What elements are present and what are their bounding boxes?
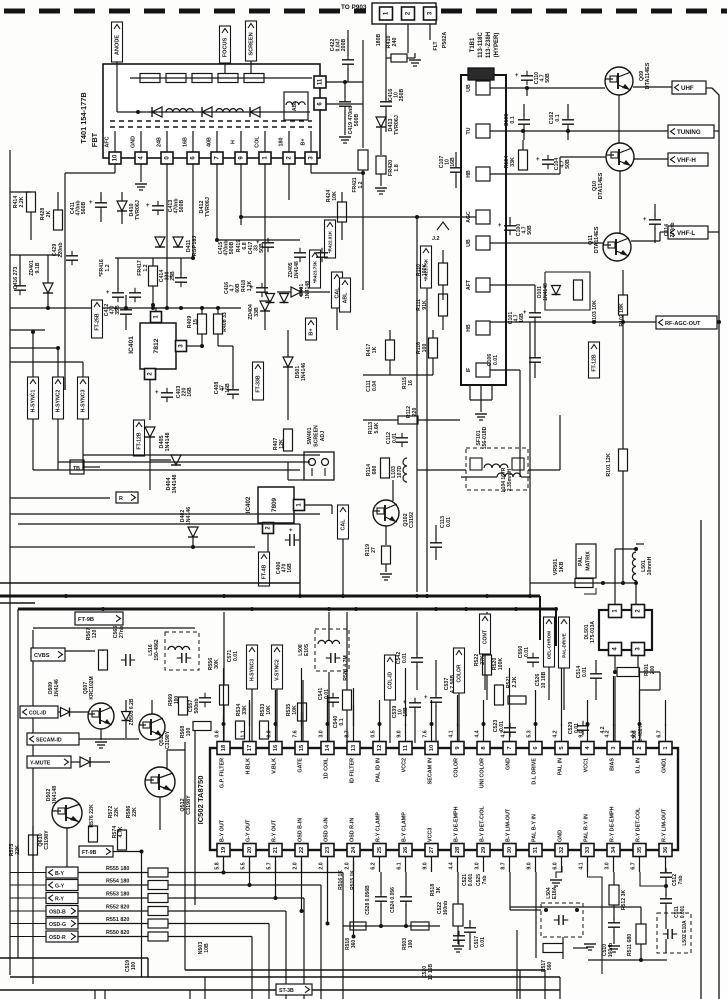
svg-text:R115: R115: [402, 377, 408, 389]
svg-text:HB: HB: [466, 324, 472, 332]
svg-text:33K: 33K: [242, 705, 248, 715]
label R422 91K: [325, 220, 336, 258]
capacitor C110 4.7 50B: [521, 75, 533, 77]
svg-text:ABL: ABL: [343, 292, 349, 303]
svg-text:7: 7: [507, 746, 513, 749]
ic502 pin top stub 7: [509, 724, 511, 742]
wire q09 to UHF: [633, 86, 672, 88]
dl501 pin 3: [632, 643, 645, 656]
ic502 pin 19 B-Y OUT: [217, 844, 230, 857]
svg-text:R515 1K: R515 1K: [350, 870, 356, 890]
fbt pin 2 180: [288, 131, 290, 152]
svg-text:OSD-B: OSD-B: [49, 909, 66, 915]
ic502 pin 10 SECAM IN: [425, 742, 438, 755]
svg-text:29: 29: [481, 846, 487, 853]
label R-Y: [46, 893, 78, 904]
svg-text:UNI COLOR: UNI COLOR: [480, 758, 486, 788]
ic502 pin top stub 16: [275, 724, 277, 742]
svg-text:G-Y OUT: G-Y OUT: [246, 819, 252, 842]
svg-text:B-Y OUT: B-Y OUT: [220, 819, 226, 842]
ic502 pin 3 BIAS: [607, 742, 620, 755]
ic502 pin bottom stub 22: [301, 857, 303, 873]
svg-text:22K: 22K: [132, 807, 138, 817]
svg-text:4.2: 4.2: [605, 730, 611, 737]
ic502 pin bottom stub 20: [249, 857, 251, 873]
wire band top run: [33, 627, 195, 629]
svg-text:ZD503 6.2B: ZD503 6.2B: [129, 698, 135, 725]
tuner pin UB: [476, 81, 490, 95]
svg-text:270nb: 270nb: [670, 223, 676, 238]
svg-text:FT-12B: FT-12B: [137, 432, 143, 450]
diode D502 1N4148: [80, 757, 90, 767]
svg-text:10 16B: 10 16B: [428, 964, 434, 981]
wire row R-Y drop: [303, 898, 305, 999]
svg-text:C521: C521: [462, 874, 468, 886]
wire mid x417: [416, 218, 418, 592]
svg-text:2.0: 2.0: [319, 862, 325, 869]
svg-text:18B: 18B: [403, 707, 409, 717]
transistor Q09 DTA114ES: [605, 67, 633, 95]
svg-text:TU: TU: [466, 127, 472, 134]
wire tuner UB2 right: [490, 242, 603, 244]
svg-text:4.4: 4.4: [475, 730, 481, 737]
wire sw401: [287, 462, 289, 480]
wire feed to pin 12: [379, 700, 381, 726]
svg-text:0.1: 0.1: [555, 114, 561, 121]
inductor fbt winding 2: [216, 109, 243, 112]
ic502 pin 17 H.BLK: [243, 742, 256, 755]
wire fbt pin6 right: [326, 103, 363, 105]
inductor L104 167R: [497, 473, 521, 477]
svg-text:TB: TB: [73, 466, 80, 472]
ic502 pin bottom stub 24: [353, 857, 355, 873]
svg-text:16: 16: [273, 744, 279, 751]
svg-text:Q511: Q511: [159, 734, 165, 746]
svg-text:*FR416: *FR416: [99, 259, 105, 277]
ic502 pin 14 1D COIL: [321, 742, 334, 755]
svg-text:R-Y OUT: R-Y OUT: [272, 819, 278, 842]
wire anode stem: [116, 62, 118, 78]
svg-text:28: 28: [455, 846, 461, 853]
svg-text:12: 12: [377, 745, 383, 751]
svg-text:FLT: FLT: [433, 41, 439, 51]
svg-text:1N4146: 1N4146: [54, 679, 60, 697]
svg-text:H: H: [231, 140, 237, 144]
svg-text:1N4148: 1N4148: [294, 261, 300, 279]
svg-text:R567: R567: [86, 628, 92, 641]
label FT-33B: [253, 362, 264, 400]
svg-text:40B: 40B: [207, 137, 213, 147]
svg-text:OSD B-IN: OSD B-IN: [298, 818, 304, 842]
transistor Q610 C3198Y: [52, 798, 82, 828]
diode D411 RGP16J: [155, 237, 165, 247]
wire dashed top border left segment: [4, 9, 366, 14]
wire row G-Y to pin: [249, 860, 251, 885]
label B+: [306, 318, 317, 340]
ic502 pin top stub 5: [561, 724, 563, 742]
svg-text:4.7K: 4.7K: [118, 826, 124, 837]
svg-text:R417: R417: [366, 344, 372, 357]
label FT-4B: [259, 552, 270, 586]
svg-text:R511 680: R511 680: [627, 934, 633, 956]
wire IF down: [490, 369, 520, 371]
diode fbt rectifier 1: [152, 107, 162, 117]
svg-text:FT-9B: FT-9B: [82, 850, 97, 856]
svg-text:5.8: 5.8: [215, 862, 221, 869]
svg-text:R407: R407: [273, 438, 279, 451]
svg-text:DEL-CHROM: DEL-CHROM: [547, 631, 552, 659]
svg-text:0.01: 0.01: [480, 937, 486, 947]
diode D101 1N4148 loop: [545, 272, 590, 310]
wire feed to pin 3: [613, 676, 615, 726]
label H-SYNC2: [53, 377, 64, 419]
wire row G-Y drop: [320, 885, 322, 999]
svg-text:T1B1: T1B1: [470, 37, 476, 52]
label CVBS: [31, 648, 65, 661]
svg-text:R553 180: R553 180: [106, 892, 129, 898]
svg-text:DTA114ES: DTA114ES: [598, 172, 604, 199]
svg-text:2: 2: [637, 746, 643, 749]
resistor fbt divider 1: [140, 74, 160, 83]
ic502 pin 23 OSD G-IN: [321, 844, 334, 857]
fbt pin 0 24B: [166, 131, 168, 152]
svg-text:R428: R428: [40, 208, 46, 221]
svg-text:250B: 250B: [399, 89, 405, 102]
ic502 pin bottom stub 27: [431, 857, 433, 873]
svg-text:VCC1: VCC1: [584, 758, 590, 772]
wire upper mid horizontals: [10, 497, 110, 499]
svg-text:Q10: Q10: [592, 181, 598, 191]
svg-text:R551 820: R551 820: [106, 917, 129, 923]
wire mid h y375: [363, 374, 433, 376]
ic502 pin top stub 11: [405, 724, 407, 742]
svg-text:T401 154-177B: T401 154-177B: [79, 92, 88, 143]
ic502 pin bottom stub 34: [613, 857, 615, 873]
fbt core dashes: [110, 120, 312, 122]
tuner pin HB: [476, 167, 490, 181]
svg-text:7nb: 7nb: [482, 876, 488, 885]
wire fbt pin1 down: [264, 164, 266, 292]
wire fbt pin3 down: [310, 164, 312, 173]
svg-text:R110: R110: [416, 264, 422, 276]
svg-text:26: 26: [403, 846, 409, 853]
label COL-ID bottom-left: [20, 706, 58, 718]
wire feed to pin 8: [483, 700, 485, 726]
svg-text:C550: C550: [518, 646, 524, 659]
svg-text:156-018D: 156-018D: [482, 426, 488, 449]
svg-text:V.BLK: V.BLK: [272, 758, 278, 774]
svg-text:100: 100: [186, 728, 192, 737]
svg-text:1N4148: 1N4148: [165, 433, 171, 452]
wire feed to pin 15: [301, 668, 303, 726]
svg-text:C528 0.056B: C528 0.056B: [365, 885, 371, 915]
svg-text:C523: C523: [493, 720, 499, 733]
svg-text:R574: R574: [112, 826, 118, 839]
svg-text:Q09: Q09: [639, 71, 645, 81]
label FT-12B: [134, 420, 145, 456]
svg-text:1N4148: 1N4148: [172, 475, 178, 494]
svg-text:C3192: C3192: [409, 512, 415, 528]
svg-text:D501: D501: [295, 366, 301, 379]
wire bottom bus 3: [0, 989, 560, 991]
svg-text:30: 30: [507, 847, 513, 853]
svg-text:0.01: 0.01: [493, 355, 499, 365]
ic401 pin 1: [151, 312, 162, 323]
svg-text:25: 25: [377, 846, 383, 853]
arrow J2: [437, 222, 449, 230]
svg-text:CVBS: CVBS: [34, 653, 50, 659]
ic502 pin 4 VCC1: [581, 742, 594, 755]
wire sf101 left: [417, 469, 466, 471]
svg-text:R424: R424: [326, 190, 332, 203]
fbt pin 7 40B: [216, 131, 218, 152]
svg-text:R550 820: R550 820: [106, 930, 129, 936]
svg-text:27: 27: [429, 847, 435, 853]
svg-text:7nb: 7nb: [678, 876, 684, 885]
svg-text:COLOR: COLOR: [454, 758, 460, 778]
svg-text:PAL-DRIVE: PAL-DRIVE: [562, 633, 567, 657]
wire feed to pin 2: [639, 668, 641, 726]
ic502 pin 32 GND: [555, 844, 568, 857]
svg-text:C3198Y: C3198Y: [165, 730, 171, 749]
svg-text:GND1: GND1: [662, 758, 668, 773]
svg-text:10K: 10K: [266, 705, 272, 715]
svg-text:FT-4B: FT-4B: [262, 565, 268, 580]
capacitor C510 160nb: [588, 857, 603, 974]
ic502 pin 18 G.P. FILTER: [217, 742, 230, 755]
svg-text:16B: 16B: [287, 563, 293, 573]
svg-text:10 18B: 10 18B: [541, 671, 547, 688]
ic502 pin bottom stub 35: [639, 857, 641, 873]
wire left of ic vertical 2: [194, 731, 196, 905]
wire row G-Y: [78, 884, 148, 886]
label R arrow box: [116, 492, 138, 503]
svg-text:UHF: UHF: [681, 85, 694, 92]
svg-text:E18A: E18A: [552, 886, 558, 899]
ic502 pin top stub 18: [223, 724, 225, 742]
ic502 pin bottom stub 19: [223, 857, 225, 873]
svg-text:180B: 180B: [376, 34, 382, 47]
ic502 pin bottom stub 32: [561, 857, 563, 873]
svg-text:3K: 3K: [436, 886, 442, 893]
diode D402 1N4146: [188, 527, 198, 537]
svg-text:C419 470nb: C419 470nb: [348, 106, 354, 135]
svg-text:J.2: J.2: [432, 236, 440, 242]
svg-text:IC402: IC402: [245, 496, 252, 513]
wire row B-Y to pin: [223, 860, 225, 873]
capacitor C419 470nb 500B: [344, 82, 346, 98]
wire tuner bottom stubs: [469, 385, 471, 400]
svg-text:GND: GND: [506, 758, 512, 770]
svg-text:50B: 50B: [565, 159, 571, 169]
label PAL MATRIX: [576, 544, 596, 578]
svg-text:VR501: VR501: [553, 559, 559, 575]
svg-text:Q512: Q512: [180, 798, 186, 811]
ic502 pin bottom stub 33: [587, 857, 589, 873]
label OSD-B: [46, 906, 78, 917]
resistor R511 680: [636, 924, 646, 944]
ic502 pin top stub 2: [639, 724, 641, 742]
svg-text:ZD404: ZD404: [248, 304, 254, 320]
svg-text:R576 22K: R576 22K: [89, 804, 95, 828]
svg-text:7809: 7809: [271, 497, 278, 512]
svg-text:0.01: 0.01: [446, 517, 452, 527]
dl501 pin 4: [609, 643, 622, 656]
connector P903 pin 3: [424, 7, 437, 20]
wire feed to pin 13: [353, 688, 355, 726]
wire cvbs right: [65, 650, 95, 652]
wire feed to pin 5: [561, 668, 563, 726]
resistor fbt divider 3: [192, 74, 212, 83]
transistor Q512 C3198Y: [145, 767, 175, 797]
svg-text:+: +: [536, 157, 540, 163]
wire ft9b to drop: [113, 851, 142, 853]
wire afc run left: [65, 172, 115, 174]
svg-text:*R423.75K: *R423.75K: [313, 260, 318, 283]
svg-text:SECAM-ID: SECAM-ID: [36, 737, 62, 743]
wire fbt pin10 down: [114, 164, 116, 173]
svg-text:R104: R104: [504, 156, 510, 169]
svg-text:FR421: FR421: [352, 177, 358, 192]
svg-text:C3198Y: C3198Y: [186, 795, 192, 815]
wire q11 to VHF-L: [631, 240, 660, 242]
svg-text:C113: C113: [440, 516, 446, 528]
label CONT band: [480, 614, 491, 654]
ic502 pin 8 UNI COLOR: [477, 742, 490, 755]
svg-text:CONT: CONT: [483, 630, 489, 644]
svg-text:2.2K: 2.2K: [512, 676, 518, 687]
diode fbt rectifier 2: [202, 107, 212, 117]
svg-text:R419: R419: [236, 240, 242, 253]
ic502 pin 1 GND1: [659, 742, 672, 755]
svg-text:+: +: [89, 200, 93, 206]
svg-text:Q507: Q507: [83, 682, 89, 694]
svg-text:IC401: IC401: [128, 336, 135, 354]
svg-text:+: +: [424, 695, 428, 701]
wire left rail: [9, 150, 11, 975]
zener ZD503 6.2B: [122, 712, 131, 721]
svg-text:10K: 10K: [332, 191, 338, 201]
svg-text:C529: C529: [568, 722, 574, 735]
svg-text:CAL: CAL: [341, 519, 347, 531]
resistor R512 3K: [609, 885, 619, 905]
wire from P903 pin 3: [429, 24, 431, 40]
wire feed to pin 7: [509, 668, 511, 726]
svg-text:R103 10K: R103 10K: [592, 300, 598, 324]
svg-text:1.2: 1.2: [105, 264, 111, 271]
svg-text:R552 820: R552 820: [106, 905, 129, 911]
svg-text:COL-ID: COL-ID: [29, 710, 47, 716]
svg-text:R517: R517: [541, 960, 547, 972]
ic502 pin 27 VCC3: [425, 844, 438, 857]
svg-text:+: +: [523, 310, 527, 316]
wire secam-id right: [79, 738, 139, 740]
label ST-3B: [276, 984, 312, 995]
svg-text:R516 1K: R516 1K: [338, 870, 344, 890]
tuner pin UB: [476, 236, 490, 250]
svg-text:50B: 50B: [545, 73, 551, 83]
svg-text:500B: 500B: [179, 200, 185, 213]
inductor fbt winding 1: [166, 109, 193, 112]
wire left mid horizontals: [10, 254, 60, 256]
label SCREEN: [246, 21, 257, 61]
svg-text:L104 167R: L104 167R: [501, 467, 507, 492]
wire hsync stems up: [32, 332, 34, 377]
resistor R601 200: [617, 668, 639, 677]
trap L502 E10A: [657, 913, 691, 953]
svg-text:33: 33: [585, 846, 591, 853]
svg-text:FBT: FBT: [90, 132, 99, 147]
svg-text:13: 13: [351, 744, 357, 751]
svg-text:L103: L103: [391, 466, 397, 478]
ic402 pin 2: [263, 523, 274, 534]
ic502 pin 34 R-Y DE-EMPH: [607, 844, 620, 857]
ic502 pin 24 OSD R-IN: [347, 844, 360, 857]
wire fbt pin6b down: [192, 164, 194, 258]
wire row OSD-G to pin: [327, 860, 329, 924]
svg-text:R409: R409: [187, 316, 193, 329]
resistor R518 360: [350, 922, 366, 930]
svg-text:C526: C526: [535, 674, 541, 687]
svg-text:1N4146: 1N4146: [186, 507, 192, 525]
wire vr501 row: [530, 582, 636, 584]
svg-text:22: 22: [299, 847, 305, 853]
svg-text:3.0: 3.0: [475, 862, 481, 869]
diode fbt rectifier 3: [250, 107, 260, 117]
svg-text:DTA114ES: DTA114ES: [645, 62, 651, 89]
ic502 pin 16 V.BLK: [269, 742, 282, 755]
ic502 pin top stub 3: [613, 724, 615, 742]
wire left of ic vertical 1: [184, 742, 186, 970]
svg-text:C522: C522: [437, 902, 443, 914]
svg-text:B+: B+: [301, 138, 307, 145]
wire tuning to rail: [714, 130, 719, 132]
svg-text:160nb: 160nb: [443, 901, 449, 915]
svg-text:+: +: [155, 390, 159, 396]
svg-text:E10S: E10S: [304, 643, 310, 656]
diode D405 1N4148: [145, 427, 155, 437]
wire row OSD-R to pin: [353, 860, 355, 937]
diode D404 1N4148: [171, 455, 181, 465]
svg-text:17: 17: [247, 745, 253, 751]
svg-text:Q102: Q102: [403, 513, 409, 526]
wire q10 down q11: [619, 171, 621, 233]
ic502 pin top stub 14: [327, 724, 329, 742]
svg-text:22K: 22K: [114, 807, 120, 817]
capacitor C406 470 16B cap: [289, 534, 291, 546]
svg-text:+: +: [515, 73, 519, 79]
label VHF-L: [668, 226, 708, 239]
svg-text:COL-ID: COL-ID: [388, 672, 394, 690]
svg-text:C571: C571: [227, 650, 233, 663]
wire feed to pin 9: [457, 695, 459, 726]
svg-text:8.7: 8.7: [501, 862, 507, 869]
svg-text:D101: D101: [537, 286, 543, 298]
svg-text:C106: C106: [487, 354, 493, 367]
svg-text:C524 0.056: C524 0.056: [390, 887, 396, 913]
svg-text:R601: R601: [644, 664, 650, 676]
svg-text:B-Y: B-Y: [55, 871, 64, 877]
svg-text:8.7: 8.7: [345, 730, 351, 737]
wire q102 collector: [392, 480, 394, 501]
svg-text:2.2K: 2.2K: [19, 196, 25, 207]
svg-text:35: 35: [637, 846, 643, 853]
ic502 pin bottom stub 36: [665, 857, 667, 873]
ic401 pin 2: [145, 369, 156, 380]
svg-text:500nb: 500nb: [194, 699, 200, 714]
wire tuner HB right: [490, 173, 560, 175]
wire dl501 to ic: [614, 676, 616, 743]
